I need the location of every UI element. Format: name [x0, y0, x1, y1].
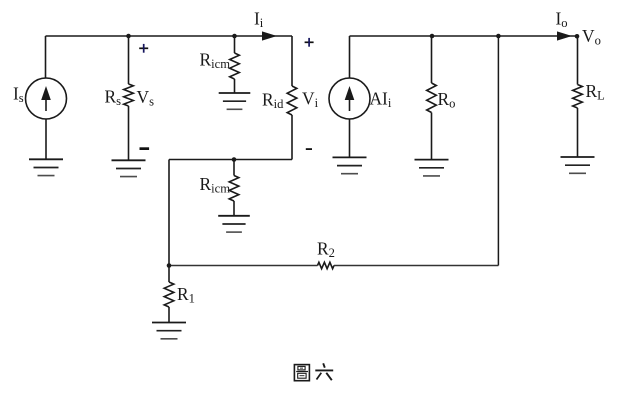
wire Rid lower vertical: [291, 115, 293, 160]
resistor R1: [164, 282, 174, 307]
wire Is bottom vertical: [45, 119, 47, 159]
wire RL upper vertical: [577, 36, 579, 85]
plus sign Vi: [305, 41, 314, 43]
wire R2 right segment: [334, 265, 498, 267]
ground below lower Ricm: [218, 215, 250, 217]
wire top-left horizontal run node A: [46, 35, 293, 37]
node junction feedback top: [496, 34, 501, 39]
node junction Ricm top: [232, 34, 237, 39]
node junction Ro top: [430, 34, 435, 39]
wire Rs upper vertical: [128, 36, 130, 84]
resistor Ro: [427, 83, 437, 113]
resistor Ricm upper: [230, 53, 240, 79]
current source Is circle: [26, 78, 67, 119]
wire Ricm lower vertical: [233, 160, 235, 176]
wire AIi bottom vertical: [349, 119, 351, 157]
wire RL lower vertical: [577, 108, 579, 157]
ground below AIi: [333, 156, 367, 158]
wire Rs lower vertical: [128, 106, 130, 160]
node junction Rs top: [126, 34, 131, 39]
resistor Rid: [287, 86, 297, 115]
ground below Is: [29, 158, 63, 160]
wire top-right horizontal run node C: [350, 35, 578, 37]
dependent current source AIi circle: [329, 78, 370, 119]
resistor Rs: [124, 84, 134, 106]
wire Is top vertical: [45, 36, 47, 78]
wire Ricm lower to ground: [233, 201, 235, 216]
caption figure six glyph TU (圖): [294, 365, 309, 381]
minus sign Vi: [306, 148, 312, 150]
wire Ro lower vertical: [431, 113, 433, 160]
ground below RL: [561, 156, 595, 158]
ground below R1: [152, 322, 186, 324]
minus sign Vs: [140, 147, 150, 150]
wire left feedback vertical: [168, 160, 170, 266]
wire Rid upper vertical: [291, 36, 293, 86]
caption figure six glyph LIU (六): [315, 363, 333, 380]
node Vo: [575, 34, 580, 39]
wire R2 left segment: [169, 265, 318, 267]
wire R1 to ground: [168, 307, 170, 323]
dependent current source AIi arrow: [349, 97, 351, 112]
wire Ricm upper vertical: [234, 36, 236, 53]
resistor R2: [318, 262, 335, 268]
current source Is arrow: [45, 97, 47, 112]
wire R1 upper vertical: [168, 266, 170, 283]
wire AIi top vertical: [349, 36, 351, 79]
wire Ricm upper to ground: [234, 79, 236, 93]
resistor Ricm lower: [229, 176, 239, 202]
plus sign Vs: [139, 47, 148, 49]
resistor RL: [573, 85, 583, 109]
node junction R1 top: [167, 263, 172, 268]
arrow Ii: [262, 31, 277, 40]
wire right feedback vertical: [497, 36, 499, 266]
wire Ro upper vertical: [431, 36, 433, 83]
ground below Ro: [415, 159, 449, 161]
ground below upper Ricm: [219, 92, 251, 94]
wire bottom horizontal node B: [169, 159, 292, 161]
arrow Io: [557, 31, 572, 40]
node junction Ricm lower top: [232, 157, 237, 162]
ground below Rs: [112, 159, 146, 161]
